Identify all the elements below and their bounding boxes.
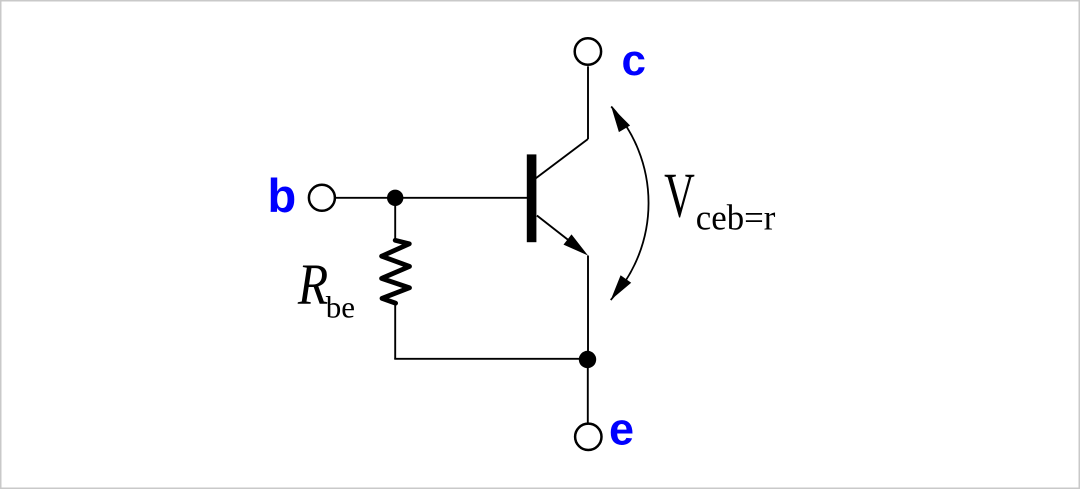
node junction dot base <box>387 190 403 206</box>
wire collector vertical <box>587 66 589 139</box>
svg-text:c: c <box>622 36 646 85</box>
terminal circle e <box>575 424 601 450</box>
wire emitter vertical <box>587 256 589 361</box>
svg-text:b: b <box>268 169 297 222</box>
wire base <box>336 197 527 199</box>
emitter arrowhead <box>564 234 589 255</box>
wire resistor to bottom rail <box>394 304 396 359</box>
wire collector diagonal <box>536 139 589 179</box>
terminal circle c <box>575 38 601 64</box>
svg-text:be: be <box>326 290 355 325</box>
Vce measurement arc <box>611 107 649 301</box>
wire base node to resistor <box>394 198 396 240</box>
svg-text:e: e <box>609 403 634 454</box>
arc arrowhead bottom <box>611 275 632 300</box>
arc arrowhead top <box>611 107 630 133</box>
svg-text:V: V <box>664 160 695 230</box>
svg-text:R: R <box>297 252 328 317</box>
node junction dot emitter <box>579 351 596 368</box>
terminal circle b <box>309 185 335 211</box>
transistor bar <box>527 154 537 242</box>
svg-text:ceb=r: ceb=r <box>696 197 776 238</box>
wire bottom rail <box>394 358 587 360</box>
resistor Rbe zigzag <box>382 240 410 303</box>
wire emitter diagonal <box>537 216 583 252</box>
wire emitter node to terminal e <box>587 360 589 423</box>
